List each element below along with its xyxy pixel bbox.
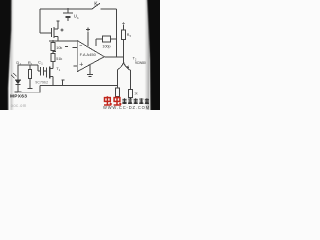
svg-text:100p: 100p [102, 45, 110, 49]
svg-text:1k: 1k [134, 92, 138, 96]
svg-text:F.A A450: F.A A450 [80, 52, 97, 57]
svg-text:51k: 51k [56, 57, 62, 61]
svg-text:WWW.CC-DZ.COM: WWW.CC-DZ.COM [103, 105, 150, 110]
svg-text:MPX63: MPX63 [10, 94, 27, 100]
svg-text:9CW80: 9CW80 [135, 61, 146, 65]
svg-text:10k: 10k [56, 46, 62, 50]
svg-text:ooc.om: ooc.om [11, 103, 27, 108]
svg-text:9C79b2: 9C79b2 [35, 81, 48, 85]
